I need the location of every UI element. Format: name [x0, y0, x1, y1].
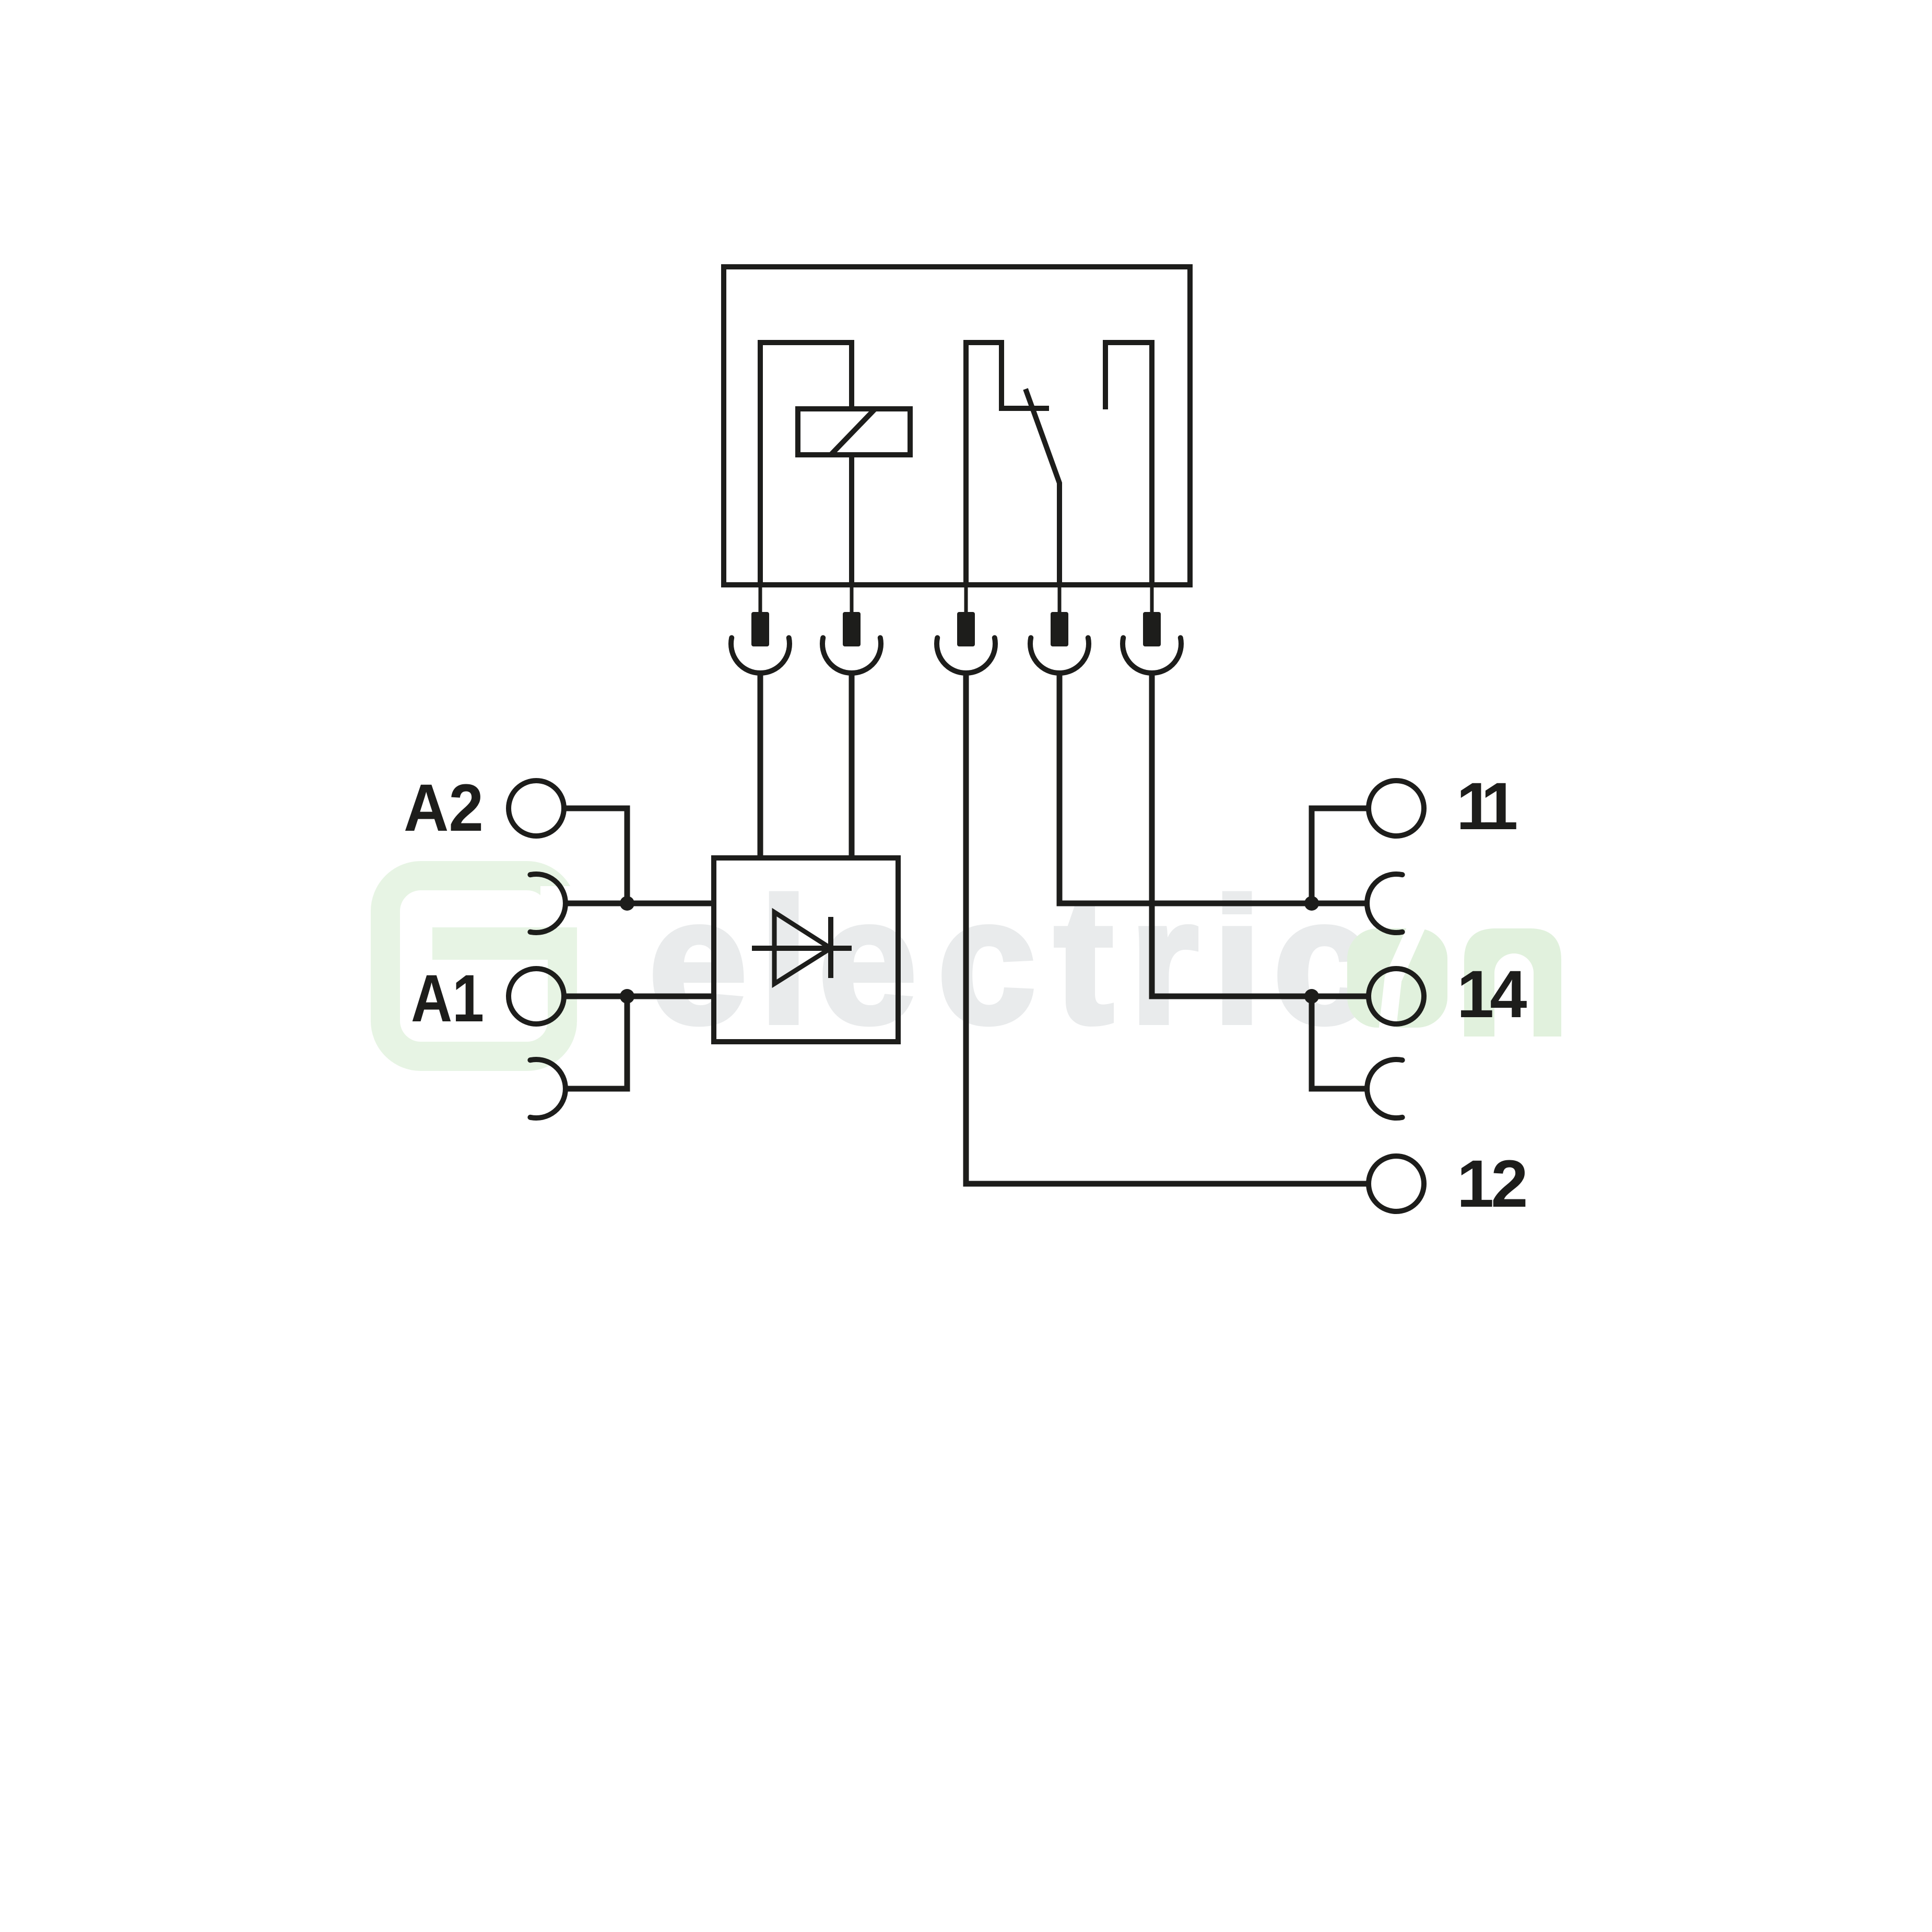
wire 14 branch to bottom socket	[1312, 996, 1367, 1089]
terminal 3 plug	[937, 585, 995, 673]
terminal 1 plug	[731, 585, 790, 673]
switch moving contact arm	[1026, 389, 1059, 585]
wire A1 to diode box	[564, 994, 711, 999]
wire A1 branch to bottom socket	[566, 996, 627, 1089]
junction dot A2	[620, 896, 634, 911]
junction dot A1	[620, 989, 634, 1004]
junction dot 11	[1304, 896, 1319, 911]
relay coil K1	[798, 409, 910, 455]
relay box K1 outline	[724, 267, 1190, 585]
wire 11 to NC row	[1312, 808, 1369, 903]
socket arc left bottom	[530, 1059, 566, 1118]
socket arc right top	[1367, 874, 1403, 933]
wire below coil	[849, 455, 854, 585]
wire terminal5 to terminal 14	[1152, 673, 1369, 996]
terminal 2 plug	[822, 585, 881, 673]
wire NC hook branch	[1105, 343, 1152, 585]
wire terminal3 to terminal 12	[966, 673, 1369, 1184]
wire left socket to diode box	[566, 901, 711, 906]
watermark letter n	[1464, 928, 1561, 1036]
svg-text:A1: A1	[411, 961, 484, 1036]
wire terminal2 to diode box	[849, 673, 855, 855]
wire switch common branch	[966, 343, 1049, 585]
watermark logo G	[385, 876, 582, 1056]
wire terminal1 to diode box	[758, 673, 763, 855]
svg-text:14: 14	[1457, 957, 1527, 1032]
svg-text:12: 12	[1457, 1147, 1526, 1221]
terminal circle A2	[509, 781, 564, 836]
terminal 5 plug	[1123, 585, 1181, 673]
wire terminal4 to NC socket	[1059, 673, 1367, 903]
terminal circle 14	[1369, 969, 1424, 1024]
socket arc right bottom	[1367, 1059, 1403, 1118]
svg-text:electric: electric	[649, 862, 1372, 1061]
diode box U1	[714, 858, 898, 1042]
socket arc left top	[530, 874, 566, 933]
terminal circle 12	[1369, 1156, 1424, 1211]
svg-text:11: 11	[1456, 769, 1516, 844]
watermark letter o with bolt	[1347, 925, 1447, 1030]
junction dot 14	[1304, 989, 1319, 1004]
diode D1	[752, 912, 852, 984]
wire coil branch inside box	[760, 343, 852, 585]
wire A2 to coil input	[564, 808, 627, 903]
coil diagonal mark	[831, 409, 875, 455]
terminal circle A1	[509, 969, 564, 1024]
terminal circle 11	[1369, 781, 1424, 836]
terminal 4 plug	[1030, 585, 1089, 673]
svg-text:A2: A2	[404, 771, 484, 845]
